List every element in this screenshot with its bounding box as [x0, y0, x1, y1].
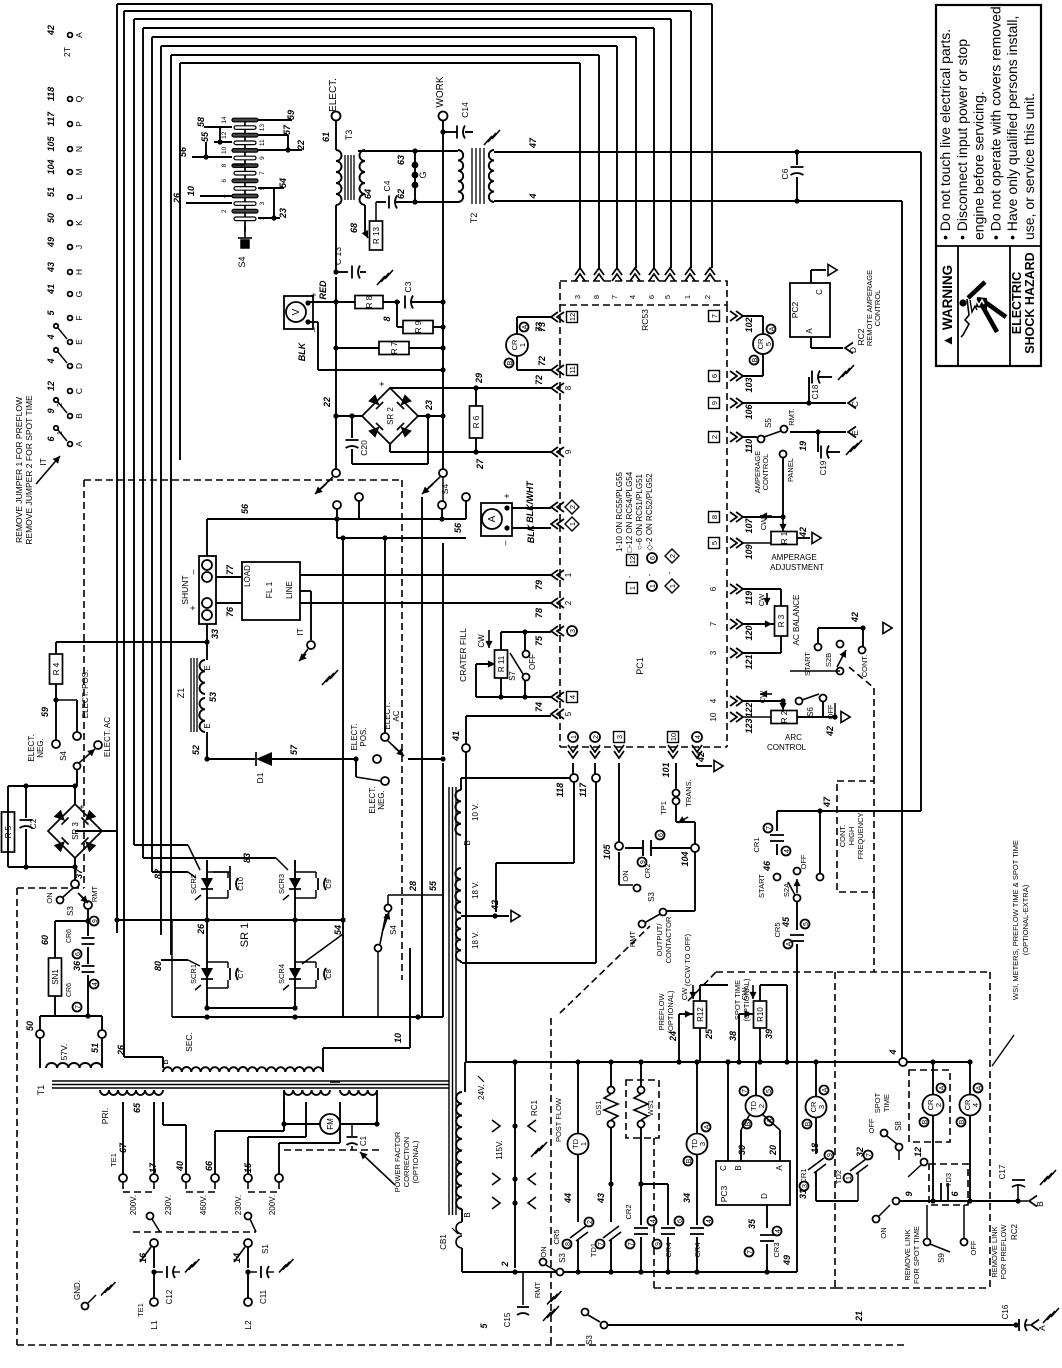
terminal G wire 41 — [68, 292, 73, 297]
svg-text:42: 42 — [46, 25, 56, 36]
svg-text:33: 33 — [210, 629, 220, 639]
capacitor C18 — [743, 402, 846, 404]
svg-text:9: 9 — [564, 449, 573, 454]
wire 37 — [75, 830, 117, 832]
svg-text:A: A — [805, 328, 814, 334]
capacitor C17 — [1017, 1184, 1019, 1201]
svg-text:10: 10 — [221, 146, 228, 154]
svg-text:A: A — [769, 326, 776, 331]
svg-text:• Do not operate with covers r: • Do not operate with covers removed. — [987, 2, 1003, 240]
svg-text:ELECT. POS.: ELECT. POS. — [81, 670, 90, 718]
PC1 bottom pins — [568, 745, 578, 758]
switch arm terminal E — [58, 328, 67, 339]
capacitor CR2 — [625, 847, 643, 849]
svg-text:B: B — [686, 1158, 693, 1163]
svg-text:IT: IT — [295, 628, 305, 636]
svg-text:6: 6 — [221, 179, 228, 183]
capacitor C13 — [335, 205, 337, 272]
svg-text:• Do not touch live electrical: • Do not touch live electrical parts. — [937, 29, 953, 240]
svg-text:S4: S4 — [59, 751, 68, 761]
terminal Q wire 118 — [68, 97, 73, 102]
svg-text:A: A — [786, 941, 793, 946]
dashed boundary upper — [84, 479, 403, 481]
switch S5 amperage control — [743, 436, 757, 438]
svg-text:200V.: 200V. — [268, 1195, 277, 1215]
warning box — [936, 5, 1041, 366]
svg-text:CONT.: CONT. — [860, 655, 869, 678]
svg-text:7: 7 — [75, 1005, 82, 1009]
svg-text:C18: C18 — [811, 384, 820, 399]
svg-text:PRI.: PRI. — [100, 1108, 110, 1125]
svg-text:D1: D1 — [255, 772, 265, 783]
svg-text:CR3: CR3 — [772, 1242, 781, 1257]
svg-text:HIGH: HIGH — [847, 827, 856, 846]
wire BLK/WHT to diamond 2 — [512, 507, 551, 509]
transformer T1 core — [52, 1080, 449, 1082]
svg-text:2T: 2T — [62, 47, 72, 57]
wire 78 FL1 line — [300, 602, 551, 604]
svg-text:52: 52 — [191, 745, 201, 755]
svg-text:43: 43 — [46, 262, 56, 273]
svg-text:6: 6 — [650, 556, 657, 560]
svg-text:A: A — [522, 324, 529, 329]
svg-text:B: B — [161, 1059, 170, 1064]
svg-text:8: 8 — [592, 295, 601, 299]
svg-text:4: 4 — [709, 698, 718, 703]
wire 41 — [466, 715, 551, 717]
svg-text:2: 2 — [934, 1103, 943, 1107]
stabilizer Z1 — [190, 658, 192, 732]
svg-text:4: 4 — [568, 695, 577, 699]
svg-text:-: - — [625, 575, 634, 578]
svg-text:9: 9 — [92, 919, 99, 923]
svg-text:230V.: 230V. — [164, 1195, 173, 1215]
svg-text:16: 16 — [138, 1252, 148, 1263]
svg-text:TP1: TP1 — [659, 801, 668, 815]
wire 41 crater — [440, 756, 445, 761]
svg-text:CR5: CR5 — [773, 922, 782, 937]
svg-text:IT: IT — [38, 458, 48, 466]
svg-text:C11: C11 — [259, 1289, 268, 1304]
svg-text:9: 9 — [259, 156, 266, 160]
svg-text:A: A — [704, 1124, 711, 1129]
svg-text:104: 104 — [46, 159, 56, 174]
capacitor C9 — [317, 878, 319, 890]
svg-text:R 3: R 3 — [777, 614, 786, 627]
wire 118 — [572, 763, 574, 774]
svg-text:TRANS.: TRANS. — [684, 779, 693, 807]
svg-text:ARC: ARC — [785, 733, 802, 742]
svg-text:8: 8 — [564, 385, 573, 390]
svg-text:B: B — [752, 357, 759, 362]
svg-text:20: 20 — [768, 1145, 778, 1156]
svg-text:18 V.: 18 V. — [471, 881, 480, 899]
svg-text:73: 73 — [534, 322, 544, 332]
winding 18V upper — [455, 868, 461, 913]
svg-text:R 13: R 13 — [372, 227, 381, 244]
wire 47 vertical right — [920, 152, 922, 811]
svg-text:105: 105 — [602, 844, 612, 860]
svg-text:28: 28 — [408, 881, 418, 892]
capacitor C20 — [351, 416, 353, 438]
line L2 C11 — [247, 1247, 249, 1268]
capacitor C6 — [794, 149, 799, 154]
wire 29 to PC1 — [476, 387, 551, 389]
svg-text:L2: L2 — [243, 1320, 253, 1330]
primary taps — [122, 1102, 124, 1174]
svg-text:50: 50 — [25, 1021, 35, 1031]
svg-text:K: K — [74, 220, 84, 226]
switch S3 rmt — [540, 1259, 547, 1266]
svg-text:4: 4 — [46, 334, 56, 340]
svg-text:E: E — [850, 430, 860, 436]
S4 ladder links — [205, 142, 207, 157]
svg-text:47: 47 — [822, 796, 832, 808]
svg-text:12: 12 — [221, 131, 228, 139]
svg-text:D: D — [74, 363, 84, 369]
svg-text:4: 4 — [775, 1229, 782, 1233]
svg-text:B: B — [959, 1119, 966, 1124]
svg-text:42: 42 — [696, 752, 706, 763]
svg-text:RC2: RC2 — [1010, 1223, 1019, 1240]
connector RC53 — [560, 281, 727, 305]
winding 57V — [39, 1038, 41, 1068]
timer TD3 — [696, 1062, 698, 1134]
contact CR4a — [641, 1183, 668, 1185]
wire 105 — [618, 763, 620, 842]
svg-text:11: 11 — [259, 139, 266, 146]
svg-text:SCR1: SCR1 — [189, 964, 198, 984]
svg-text:51: 51 — [90, 1043, 100, 1053]
ammeter A — [481, 503, 512, 536]
svg-text:12: 12 — [628, 556, 637, 564]
svg-text:1: 1 — [564, 572, 573, 577]
svg-text:11: 11 — [568, 366, 577, 374]
svg-text:BLK: BLK — [297, 341, 307, 361]
svg-text:103: 103 — [744, 377, 754, 392]
svg-text:109: 109 — [744, 544, 754, 559]
svg-text:5: 5 — [663, 295, 672, 299]
svg-text:SHOCK HAZARD: SHOCK HAZARD — [1023, 252, 1037, 353]
svg-text:9: 9 — [904, 1191, 914, 1196]
wire WORK down — [442, 121, 444, 473]
resistor R4 — [50, 654, 63, 684]
shunt — [199, 556, 216, 624]
svg-text:PC2: PC2 — [790, 301, 800, 318]
switch S3 output contactor — [618, 852, 620, 885]
svg-text:CW: CW — [680, 987, 689, 1000]
svg-text:4: 4 — [46, 358, 56, 364]
svg-text:BLK: BLK — [526, 523, 536, 543]
contact CR3 — [766, 1205, 768, 1228]
svg-text:50: 50 — [46, 213, 56, 223]
thyristor SCR2 — [206, 860, 208, 917]
svg-text:7: 7 — [259, 171, 266, 175]
svg-text:14: 14 — [221, 116, 228, 124]
svg-text:Q: Q — [74, 95, 84, 102]
svg-text:17: 17 — [148, 1162, 158, 1173]
svg-text:39: 39 — [764, 1029, 774, 1039]
svg-text:OFF: OFF — [528, 654, 537, 670]
control bus — [465, 1061, 971, 1063]
svg-text:ELECTRIC: ELECTRIC — [1010, 272, 1024, 335]
svg-text:C 13: C 13 — [333, 247, 343, 265]
svg-text:B: B — [507, 360, 514, 365]
rail bottom — [462, 1271, 797, 1273]
svg-text:10: 10 — [709, 712, 718, 721]
svg-text:S4: S4 — [389, 925, 398, 935]
terminal J wire 49 — [68, 245, 73, 250]
svg-text:S5: S5 — [764, 418, 773, 428]
wire frame loop 3 — [133, 19, 135, 845]
svg-text:RMT: RMT — [90, 885, 99, 902]
resistor WS1 — [640, 1062, 642, 1086]
svg-text:TD1: TD1 — [589, 1243, 598, 1257]
winding 18V lower — [456, 918, 461, 961]
svg-text:ELECT. AC: ELECT. AC — [103, 717, 112, 757]
svg-text:56: 56 — [453, 522, 463, 533]
svg-text:5: 5 — [766, 1089, 773, 1093]
svg-text:REMOVE LINK: REMOVE LINK — [990, 1226, 999, 1277]
wire frame loop 8 — [179, 63, 181, 460]
dashed boundary mid — [688, 972, 716, 1001]
svg-text:101: 101 — [661, 762, 671, 777]
svg-text:26: 26 — [116, 1044, 126, 1056]
svg-text:74: 74 — [534, 702, 544, 712]
wire ELECT vertical — [335, 277, 337, 419]
svg-text:1: 1 — [571, 735, 578, 739]
wire 61 — [335, 121, 337, 150]
svg-text:41: 41 — [451, 731, 461, 742]
svg-text:460V.: 460V. — [199, 1195, 208, 1215]
svg-text:C: C — [74, 388, 84, 394]
wire 73 — [516, 317, 518, 334]
svg-text:1: 1 — [846, 1176, 853, 1180]
svg-text:PC1: PC1 — [635, 657, 645, 675]
connector PC1 dashed box — [559, 305, 561, 747]
svg-text:2: 2 — [55, 403, 64, 407]
svg-text:use, or service this unit.: use, or service this unit. — [1021, 93, 1037, 240]
svg-text:PREFLOW: PREFLOW — [657, 993, 666, 1031]
wire elect ac vertical — [384, 538, 386, 733]
svg-text:D: D — [848, 347, 858, 353]
switch S4 rotary ladder — [244, 118, 246, 232]
svg-text:AC BALANCE: AC BALANCE — [792, 595, 801, 646]
svg-text:1: 1 — [568, 522, 577, 526]
svg-text:LINE: LINE — [285, 581, 294, 599]
terminal N wire 105 — [68, 147, 73, 152]
switch arm terminal D — [58, 352, 67, 363]
svg-text:3: 3 — [698, 1142, 707, 1146]
svg-text:35: 35 — [747, 1218, 757, 1229]
svg-text:A: A — [74, 441, 84, 447]
svg-text:34: 34 — [682, 1193, 692, 1203]
svg-text:B: B — [463, 1212, 472, 1217]
wire 28 — [421, 497, 423, 1017]
svg-text:230V.: 230V. — [234, 1195, 243, 1215]
svg-text:3: 3 — [570, 629, 577, 633]
svg-text:7: 7 — [709, 621, 718, 626]
resistor R7 — [336, 347, 379, 349]
svg-text:○-6 ON RC51/PLG51: ○-6 ON RC51/PLG51 — [635, 473, 644, 550]
board PC2 — [790, 283, 830, 337]
svg-text:57V.: 57V. — [59, 1044, 69, 1061]
svg-text:7: 7 — [742, 1089, 749, 1093]
svg-text:GS1: GS1 — [594, 1100, 603, 1115]
svg-text:8: 8 — [382, 316, 392, 321]
svg-text:22: 22 — [322, 397, 332, 408]
svg-text:S3: S3 — [66, 906, 75, 916]
svg-text:80: 80 — [153, 961, 163, 971]
svg-text:53: 53 — [208, 692, 218, 702]
svg-text:▲ WARNING: ▲ WARNING — [940, 265, 955, 347]
terminal B wire 9 — [68, 414, 73, 419]
svg-text:GND.: GND. — [73, 1280, 82, 1300]
svg-text:12: 12 — [568, 313, 577, 321]
svg-text:9: 9 — [46, 408, 56, 413]
svg-text:CONTROL: CONTROL — [873, 290, 882, 327]
svg-text:7: 7 — [710, 314, 719, 318]
switch S4 elect select — [381, 733, 389, 741]
svg-text:42: 42 — [850, 612, 860, 623]
svg-text:SR 1: SR 1 — [239, 923, 251, 947]
resistor R8 — [308, 301, 355, 303]
winding 24V — [464, 1062, 466, 1092]
svg-text:4: 4 — [706, 1219, 713, 1223]
capacitor C7 — [229, 968, 231, 980]
svg-text:B: B — [922, 1119, 929, 1124]
wire frame loop 6 — [160, 46, 162, 935]
svg-text:CRATER FILL: CRATER FILL — [458, 628, 468, 682]
svg-text:4: 4 — [650, 1219, 657, 1223]
svg-text:14: 14 — [232, 1253, 242, 1263]
svg-text:ON: ON — [539, 1246, 548, 1257]
svg-text:5: 5 — [564, 711, 573, 716]
svg-text:R12: R12 — [696, 1007, 705, 1022]
snubber SN1 CR6 — [87, 909, 89, 921]
svg-text:62: 62 — [396, 189, 406, 199]
svg-text:NEG.: NEG. — [36, 738, 45, 758]
capacitor CR1 — [776, 811, 778, 831]
svg-text:A: A — [939, 1085, 946, 1090]
svg-text:FM: FM — [326, 1118, 335, 1130]
wire frame loop 5 — [151, 37, 153, 872]
svg-text:72: 72 — [534, 375, 544, 385]
diode D1 — [207, 758, 255, 760]
svg-text:+: + — [502, 493, 512, 498]
svg-text:J: J — [74, 245, 84, 249]
svg-text:CR2: CR2 — [624, 1204, 633, 1219]
wire 56b lower — [336, 509, 338, 538]
svg-text:D: D — [760, 1193, 769, 1199]
svg-text:120: 120 — [744, 625, 754, 640]
svg-text:POWER FACTOR: POWER FACTOR — [393, 1131, 402, 1192]
svg-text:ELECT.: ELECT. — [27, 734, 36, 761]
svg-text:5: 5 — [764, 342, 773, 346]
svg-text:61: 61 — [321, 132, 331, 142]
rectifier SR3 — [8, 785, 75, 787]
svg-text:21: 21 — [854, 1311, 864, 1322]
svg-text:C: C — [815, 289, 824, 295]
svg-text:FREQUENCY: FREQUENCY — [856, 812, 865, 859]
timer TD1 post flow — [577, 1062, 579, 1134]
svg-text:123: 123 — [744, 718, 754, 733]
svg-text:B: B — [805, 1121, 812, 1126]
svg-text:CR2: CR2 — [643, 863, 652, 878]
svg-text:G: G — [74, 291, 84, 298]
wire 18v bottom — [460, 961, 462, 963]
transformer T3 — [336, 150, 342, 205]
svg-text:78: 78 — [534, 608, 544, 618]
svg-text:V: V — [291, 308, 302, 315]
svg-text:M: M — [74, 168, 84, 175]
thyristor SCR4 — [294, 917, 296, 1008]
svg-text:1: 1 — [579, 1142, 588, 1146]
svg-text:R 4: R 4 — [52, 662, 61, 675]
svg-text:RMT: RMT — [533, 1281, 542, 1298]
svg-text:68: 68 — [349, 223, 359, 233]
svg-text:C17: C17 — [998, 1164, 1007, 1179]
svg-text:S7: S7 — [508, 671, 517, 681]
svg-text:LOAD: LOAD — [243, 565, 252, 587]
svg-text:PANEL: PANEL — [786, 458, 795, 482]
capacitor C1 power factor — [284, 1149, 379, 1151]
svg-text:105: 105 — [46, 136, 56, 152]
svg-text:2: 2 — [703, 295, 712, 299]
svg-text:3: 3 — [709, 650, 718, 655]
svg-text:3: 3 — [817, 1105, 826, 1109]
svg-text:1: 1 — [518, 343, 527, 347]
winding 10V — [455, 790, 461, 835]
svg-text:4: 4 — [528, 193, 538, 199]
svg-text:SHUNT: SHUNT — [180, 575, 190, 604]
svg-text:24V.: 24V. — [477, 1084, 486, 1100]
wire 47 row — [777, 810, 921, 812]
svg-text:46: 46 — [762, 860, 772, 872]
wire 104 to S3 — [694, 852, 696, 911]
svg-text:REMOVE LINK: REMOVE LINK — [903, 1229, 912, 1280]
svg-text:ON: ON — [45, 892, 54, 903]
svg-text:26: 26 — [172, 192, 182, 204]
svg-text:49: 49 — [46, 237, 56, 248]
svg-text:6: 6 — [647, 295, 656, 299]
svg-text:C16: C16 — [1001, 1304, 1010, 1319]
connector RC2 B — [1018, 1200, 1028, 1202]
svg-text:TIME: TIME — [882, 1094, 891, 1112]
svg-text:23: 23 — [424, 400, 434, 411]
svg-text:47: 47 — [528, 137, 538, 149]
terminal ELECT. — [332, 112, 341, 121]
svg-text:76: 76 — [225, 606, 235, 617]
switch S3 wire21 — [582, 1309, 589, 1316]
relay coil CR2b — [932, 1062, 934, 1095]
svg-text:NEG.: NEG. — [377, 790, 386, 810]
svg-text:REMOVE JUMPER 2 FOR SPOT TIME: REMOVE JUMPER 2 FOR SPOT TIME — [24, 395, 34, 545]
svg-text:107: 107 — [744, 518, 754, 534]
timer TD2 — [755, 1062, 757, 1096]
svg-text:START: START — [803, 652, 812, 676]
wire SR2 left — [336, 415, 362, 417]
svg-text:engine before servicing.: engine before servicing. — [971, 91, 987, 240]
voltmeter V — [284, 296, 313, 329]
resistor GS1 — [610, 1062, 612, 1086]
svg-text:104: 104 — [680, 851, 690, 866]
svg-text:7: 7 — [866, 1153, 873, 1157]
svg-text:ELECT.: ELECT. — [350, 723, 359, 750]
wire 27 to PC1 — [476, 451, 551, 453]
winding PRI right — [284, 1090, 330, 1095]
svg-text:ELECT.: ELECT. — [368, 786, 377, 813]
